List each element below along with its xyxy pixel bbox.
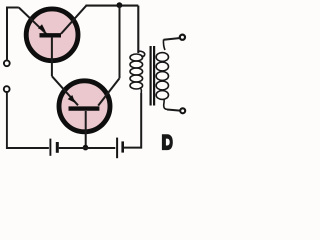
wire: bottom rail right segment and riser to transformer primary (124, 93, 141, 148)
inductor: transformer primary winding loops (130, 51, 145, 93)
terminal: secondary bottom ring (180, 108, 185, 113)
transistor Q2 emitter arrowhead (68, 95, 76, 103)
battery B1 long plate (49, 139, 51, 156)
wire: diagonal from Q1 base to Q2 emitter (52, 76, 78, 105)
terminal: left output bottom ring (4, 86, 10, 92)
junction dot at bottom rail (83, 145, 89, 151)
wire: secondary bottom lead (167, 110, 180, 111)
battery B2 long plate (116, 138, 118, 159)
label D (162, 134, 173, 150)
terminal: secondary top ring (180, 35, 185, 40)
wire: Q1 emitter diagonal (19, 8, 47, 35)
wire: left input lead top (terminal to Q1 emitter) (7, 8, 19, 60)
junction dot on top rail (117, 2, 123, 8)
wire: Q1 base lead down (51, 37, 53, 76)
transistor Q1 body (26, 9, 78, 61)
transformer core lines (150, 46, 152, 106)
wire: bottom rail (battery B1 to junction to battery B2) (59, 147, 116, 149)
transistor Q1 emitter arrowhead (38, 24, 46, 32)
wire: transformer primary top lead (drop from top rail) (137, 6, 139, 53)
inductor: transformer secondary winding loops (156, 40, 168, 110)
wire: Q2 base lead down (85, 111, 87, 148)
wire: Q1 collector diagonal to top rail (61, 6, 86, 34)
battery B2 short plate (121, 141, 124, 152)
transistor Q2 body (59, 81, 110, 132)
terminal: left output top ring (4, 60, 10, 66)
battery B1 short plate (56, 142, 59, 153)
wire: Q2 collector riser (119, 5, 121, 78)
wire: top rail (86, 5, 139, 7)
transistor Q2 base bar (69, 106, 100, 110)
wire: secondary top lead (164, 38, 180, 40)
transistor Q1 base bar (40, 33, 62, 37)
wire: Q2 collector diagonal (98, 78, 119, 105)
wire: left lead from bottom ring to bottom rail (7, 93, 49, 148)
